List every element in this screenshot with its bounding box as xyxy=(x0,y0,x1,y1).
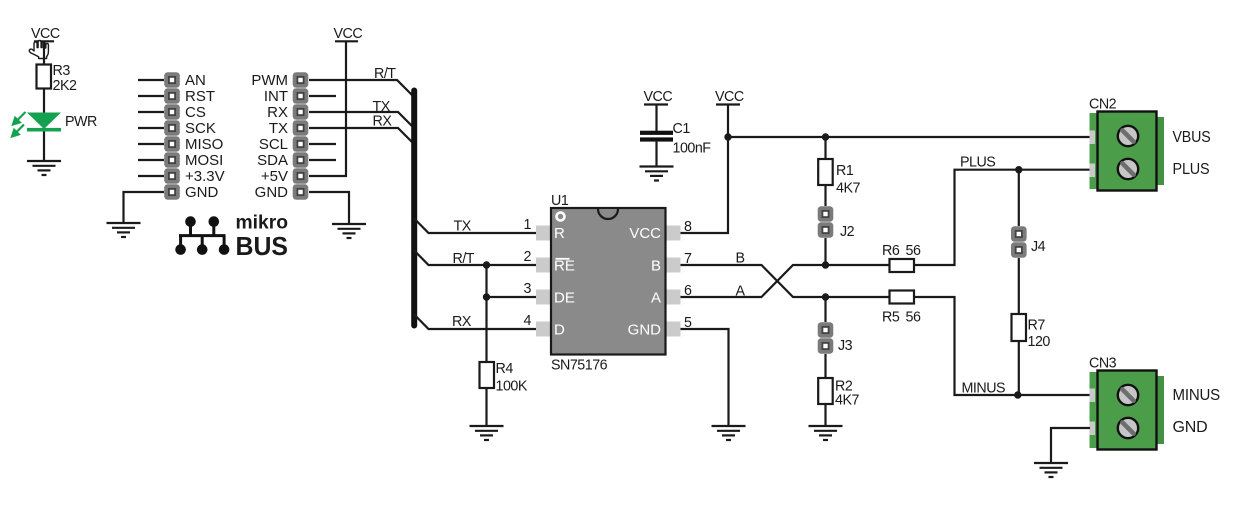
wire R3 to LED xyxy=(43,89,45,114)
svg-text:100nF: 100nF xyxy=(673,141,712,157)
svg-text:R1: R1 xyxy=(836,163,854,179)
svg-text:PWR: PWR xyxy=(65,114,97,130)
wire VCC to R3 xyxy=(43,41,45,64)
junction B/J3 xyxy=(822,293,829,300)
wire DE to U1 pin 3 xyxy=(487,296,537,298)
resistor R5 xyxy=(882,291,921,326)
wire MOSI stub xyxy=(138,159,164,161)
mouse cursor artifact (hand pointer) xyxy=(29,40,48,58)
svg-text:R6: R6 xyxy=(882,243,900,259)
wire B line to J3 xyxy=(824,297,826,322)
wire INT stub xyxy=(309,95,336,97)
wire R2 to ground xyxy=(824,404,826,426)
svg-text:MINUS: MINUS xyxy=(1173,387,1221,404)
svg-text:MOSI: MOSI xyxy=(185,152,223,169)
wire J3 to R2 xyxy=(824,354,826,378)
terminal block CN3 xyxy=(1089,356,1164,450)
wire U1 pin 7 to crossover (net B) xyxy=(681,265,826,297)
wire CN3 GND to ground xyxy=(1051,428,1090,463)
svg-text:R5: R5 xyxy=(882,310,900,326)
svg-text:VBUS: VBUS xyxy=(1173,129,1211,146)
junction on R/T at RE/DE tie xyxy=(483,261,490,268)
svg-text:B: B xyxy=(736,251,745,267)
wire R1 to J2 xyxy=(824,185,826,206)
wire MINUS to CN3 xyxy=(1018,394,1090,396)
wire C1 to ground xyxy=(655,142,657,167)
wire J2 to A line xyxy=(824,238,826,265)
wire U1 pin 5 to ground xyxy=(681,329,729,426)
wire U1 pin 6 to crossover (net A) xyxy=(681,265,826,297)
svg-text:U1: U1 xyxy=(551,193,569,209)
svg-text:PWM: PWM xyxy=(251,72,288,89)
svg-text:+5V: +5V xyxy=(261,168,288,185)
resistor R3 xyxy=(37,63,77,94)
wire J4 to R7 xyxy=(1018,258,1020,314)
junction on DE wire xyxy=(483,293,490,300)
ground (C1) xyxy=(640,167,674,181)
svg-text:GND: GND xyxy=(255,184,289,201)
svg-text:1: 1 xyxy=(524,217,532,233)
svg-text:AN: AN xyxy=(185,72,206,89)
wire SCK stub xyxy=(138,127,164,129)
junction PLUS/J4 xyxy=(1015,166,1022,173)
wire bus to U1 pin 2 (net R/T) xyxy=(414,251,536,266)
jumper J3 xyxy=(818,322,853,354)
svg-text:4: 4 xyxy=(524,313,532,329)
header left (mikroBUS side A: AN..GND) xyxy=(164,72,224,201)
svg-text:R3: R3 xyxy=(53,63,71,79)
svg-text:R/T: R/T xyxy=(453,251,475,267)
svg-text:CS: CS xyxy=(185,104,206,121)
svg-text:INT: INT xyxy=(264,88,288,105)
wire R6 to PLUS riser xyxy=(914,170,1019,265)
svg-text:RX: RX xyxy=(452,314,472,330)
resistor R6 xyxy=(882,243,921,272)
svg-text:SCK: SCK xyxy=(185,120,216,137)
wire R4 to ground xyxy=(485,388,487,426)
svg-text:GND: GND xyxy=(1173,419,1208,436)
wire PLUS to J4 xyxy=(1018,170,1020,226)
svg-text:120: 120 xyxy=(1028,334,1051,350)
ground (right header) xyxy=(332,224,366,238)
wire SDA stub xyxy=(309,159,336,161)
svg-text:MINUS: MINUS xyxy=(962,381,1006,397)
svg-text:56: 56 xyxy=(906,243,921,259)
svg-text:A: A xyxy=(736,284,746,300)
mikroBUS logo xyxy=(175,213,288,262)
wire U1 pin 8 to VCC node xyxy=(681,105,729,234)
wire CS stub xyxy=(138,111,164,113)
wire A line to R6 xyxy=(826,264,890,266)
wire RST stub xyxy=(138,95,164,97)
svg-text:VCC: VCC xyxy=(334,26,363,42)
junction MINUS/R7 xyxy=(1014,391,1021,398)
ground (left header) xyxy=(107,223,141,237)
wire GND to ground (right header) xyxy=(309,192,349,224)
svg-text:3: 3 xyxy=(524,281,532,297)
svg-text:4K7: 4K7 xyxy=(836,181,860,197)
svg-text:VCC: VCC xyxy=(31,26,60,42)
svg-text:J3: J3 xyxy=(838,338,853,354)
wire +3.3V stub xyxy=(138,175,164,177)
svg-text:SDA: SDA xyxy=(257,152,288,169)
svg-text:SN75176: SN75176 xyxy=(551,358,608,374)
jumper J2 xyxy=(818,206,855,240)
svg-text:RE: RE xyxy=(554,258,575,275)
svg-text:RST: RST xyxy=(185,88,215,105)
header right (mikroBUS side B: PWM..GND) xyxy=(251,72,308,201)
svg-text:PLUS: PLUS xyxy=(960,155,995,171)
svg-text:R: R xyxy=(554,225,565,242)
svg-text:4K7: 4K7 xyxy=(835,393,859,409)
terminal block CN2 xyxy=(1089,97,1164,191)
svg-text:B: B xyxy=(651,258,661,275)
resistor R1 xyxy=(818,159,860,197)
svg-text:2K2: 2K2 xyxy=(53,78,77,94)
svg-text:MISO: MISO xyxy=(185,136,223,153)
power flag VCC (header +5V branch) xyxy=(334,26,363,42)
wire MISO stub xyxy=(138,143,164,145)
wire SCL stub xyxy=(309,143,336,145)
junction A/J2 xyxy=(822,261,829,268)
wire PWM to bus (net R/T) xyxy=(309,80,413,96)
svg-text:GND: GND xyxy=(185,184,219,201)
svg-text:R4: R4 xyxy=(496,361,514,377)
svg-text:100K: 100K xyxy=(496,379,528,395)
resistor R4 xyxy=(480,361,528,395)
junction R1 top xyxy=(822,133,829,140)
svg-text:2: 2 xyxy=(524,249,532,265)
resistor R7 xyxy=(1012,314,1051,350)
svg-text:BUS: BUS xyxy=(236,231,289,261)
svg-text:RX: RX xyxy=(373,114,393,130)
jumper J4 xyxy=(1011,226,1046,258)
svg-text:R7: R7 xyxy=(1028,318,1046,334)
svg-text:VCC: VCC xyxy=(644,89,673,105)
svg-text:VCC: VCC xyxy=(715,89,744,105)
svg-text:DE: DE xyxy=(554,290,575,307)
power flag VCC (C1 branch) xyxy=(644,89,673,105)
svg-text:GND: GND xyxy=(628,322,662,339)
wire bus to U1 pin 1 (net TX) xyxy=(414,219,536,234)
junction VCC node xyxy=(724,133,731,140)
svg-text:C1: C1 xyxy=(673,121,691,137)
svg-text:TX: TX xyxy=(454,219,472,235)
wire VCC to C1 xyxy=(655,105,657,132)
bus (thick vertical line) xyxy=(411,91,417,326)
wire AN stub xyxy=(138,79,164,81)
ground (LED branch) xyxy=(27,161,61,175)
svg-text:TX: TX xyxy=(269,120,288,137)
svg-text:56: 56 xyxy=(906,310,921,326)
power flag VCC (net VCC, LED branch) xyxy=(31,26,60,42)
power flag VCC (U1 branch) xyxy=(715,89,744,105)
LED PWR (green) xyxy=(12,112,97,137)
ground (R4) xyxy=(470,426,504,440)
wire +5V to VCC flag xyxy=(309,41,346,176)
svg-text:CN2: CN2 xyxy=(1089,97,1117,113)
wire TX pin to bus (net RX) xyxy=(309,128,413,143)
wire LED to ground xyxy=(43,132,45,162)
svg-text:RX: RX xyxy=(267,104,288,121)
svg-text:J4: J4 xyxy=(1031,239,1046,255)
svg-text:D: D xyxy=(554,322,565,339)
op-amp U1 SN75176 transceiver xyxy=(524,193,692,374)
wire B line to R5 xyxy=(826,296,890,298)
resistor R2 xyxy=(818,378,859,409)
wire VCC node to CN2 VBUS xyxy=(728,136,1090,138)
wire bus to U1 pin 4 (net RX) xyxy=(414,315,536,330)
svg-text:J2: J2 xyxy=(840,224,855,240)
svg-text:A: A xyxy=(651,290,661,307)
wire R7 to MINUS xyxy=(1018,341,1020,395)
ground (CN3) xyxy=(1034,463,1068,477)
svg-text:CN3: CN3 xyxy=(1089,356,1117,372)
svg-text:PLUS: PLUS xyxy=(1173,161,1210,178)
svg-text:+3.3V: +3.3V xyxy=(185,168,225,185)
wire GND to ground (left header) xyxy=(124,192,165,223)
wire RE to DE tie and down to R4 xyxy=(485,265,487,362)
svg-text:SCL: SCL xyxy=(259,136,288,153)
svg-text:VCC: VCC xyxy=(629,225,661,242)
svg-text:R/T: R/T xyxy=(374,66,396,82)
wire RX pin to bus (net TX) xyxy=(309,112,413,127)
wire VCC to R1 xyxy=(824,137,826,159)
ground (R2) xyxy=(809,426,843,440)
wire PLUS to CN2 xyxy=(1019,169,1090,171)
ground (U1 GND) xyxy=(712,426,746,440)
wire R5 to MINUS line xyxy=(914,297,1018,395)
capacitor C1 100nF xyxy=(640,121,711,157)
